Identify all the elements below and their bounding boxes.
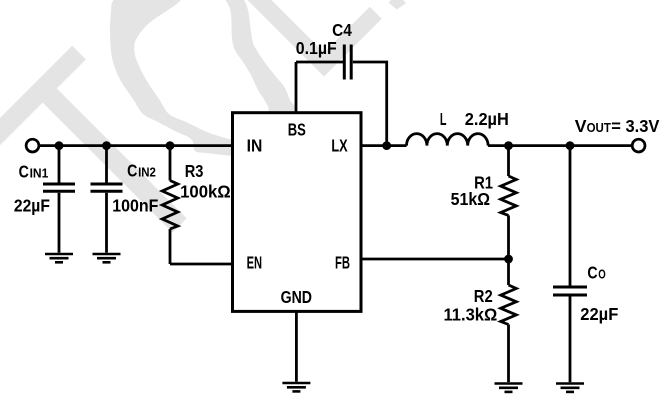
- node R3: [166, 141, 175, 150]
- watermark: [0, 0, 406, 232]
- svg-text:R3: R3: [185, 161, 204, 181]
- svg-text:22µF: 22µF: [14, 196, 50, 216]
- svg-text:C4: C4: [332, 20, 352, 40]
- watermark T crossbar: [0, 46, 86, 173]
- svg-text:C: C: [127, 160, 138, 180]
- node FB: [504, 255, 513, 264]
- resistor R2: [507, 259, 510, 285]
- capacitor CO: [569, 146, 572, 286]
- resistor R3: [169, 146, 172, 181]
- junction dots: [55, 141, 575, 263]
- svg-text:BS: BS: [288, 119, 306, 139]
- svg-text:O: O: [598, 267, 606, 282]
- svg-text:C: C: [587, 263, 598, 283]
- svg-text:51kΩ: 51kΩ: [451, 189, 490, 209]
- svg-text:L: L: [440, 109, 447, 129]
- node LX/C4: [382, 141, 391, 150]
- wire output: [488, 144, 632, 147]
- svg-text:100kΩ: 100kΩ: [180, 182, 231, 202]
- svg-text:IN1: IN1: [30, 166, 49, 181]
- watermark T stem: [43, 82, 187, 233]
- ground CO: [556, 382, 584, 385]
- capacitor CIN2: [105, 146, 108, 183]
- svg-text:22µF: 22µF: [580, 304, 618, 324]
- input terminal: [26, 139, 39, 152]
- svg-text:R2: R2: [474, 286, 493, 306]
- svg-text:FB: FB: [335, 253, 350, 273]
- capacitor CIN1: [58, 146, 61, 183]
- wire EN: [170, 263, 233, 266]
- inductor L: [407, 134, 489, 146]
- wire C4 right: [353, 62, 387, 146]
- svg-text:0.1µF: 0.1µF: [296, 38, 337, 58]
- svg-text:OUT: OUT: [587, 121, 612, 135]
- ground CIN2: [93, 253, 121, 256]
- watermark L: [243, 0, 382, 77]
- svg-text:11.3kΩ: 11.3kΩ: [444, 305, 498, 325]
- wire input main: [39, 144, 232, 147]
- watermark stroke tip top-right: [389, 0, 407, 10]
- watermark O ring outer: [110, 0, 296, 156]
- wire FB: [361, 258, 509, 261]
- svg-text:C: C: [19, 162, 30, 182]
- svg-text:EN: EN: [247, 253, 263, 273]
- IC regulator box: [233, 113, 362, 312]
- watermark O ring hole: [134, 0, 269, 140]
- svg-text:LX: LX: [331, 136, 348, 156]
- node R1 top: [504, 141, 513, 150]
- svg-text:IN2: IN2: [138, 164, 156, 179]
- svg-text:IN: IN: [247, 136, 263, 156]
- ground GND: [282, 382, 310, 385]
- svg-text:= 3.3V: = 3.3V: [611, 116, 659, 136]
- svg-text:100nF: 100nF: [112, 196, 158, 216]
- wire BS vertical: [295, 62, 298, 113]
- svg-text:GND: GND: [281, 287, 312, 307]
- ground CIN1: [45, 253, 73, 256]
- node CO top: [566, 141, 575, 150]
- node CIN1: [55, 141, 64, 150]
- resistor R1: [507, 146, 510, 176]
- ground R2: [495, 382, 523, 385]
- output terminal: [632, 139, 645, 152]
- svg-text:V: V: [575, 116, 587, 136]
- node CIN2: [102, 141, 111, 150]
- capacitor C4: [343, 45, 346, 80]
- wire LX: [361, 144, 407, 147]
- svg-text:2.2µH: 2.2µH: [465, 109, 509, 129]
- wire C4 left: [296, 61, 343, 64]
- wire GND vertical: [295, 311, 298, 381]
